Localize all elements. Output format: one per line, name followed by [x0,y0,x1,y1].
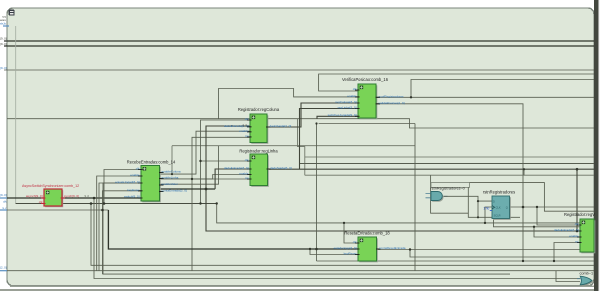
wire net enableValor branch right [172,146,415,174]
input port leds label [0,66,7,70]
svg-text:enableValor: enableValor [162,182,178,186]
input port estadoJogo label [0,266,7,270]
svg-text:enable: enable [239,172,249,176]
or-gate G2 comb~0 (clipped at right) [577,272,593,286]
wire net RecebeEntradas equaisJogada feed [103,183,141,274]
svg-text:estadoJogo[2..0]: estadoJogo[2..0] [334,246,357,250]
wire net clk input port trunk [15,26,17,204]
wire net RecebeEntradas keyEnter feed [103,191,511,274]
wire net clk into synchronizer [16,203,44,205]
svg-text:switchesJogada[9..0]: switchesJogada[9..0] [328,113,357,117]
wire net enableLinha to regLinha enable [160,175,251,179]
wire net AND gate label frame [431,183,470,188]
wire net rect B top edge [411,80,594,98]
svg-text:k..r: k..r [3,206,7,210]
svg-text:RecebeEntradas:comb_14: RecebeEntradas:comb_14 [127,160,176,165]
wire net key input port horizontal [7,209,108,211]
svg-text:Registrador:regColuna: Registrador:regColuna [238,107,280,112]
svg-text:synch[9..0]: synch[9..0] [64,194,79,198]
svg-text:keyReset: keyReset [344,252,357,256]
wire net bottom long 2 from input port [7,270,594,272]
svg-text:validaPosicao[1..0]: validaPosicao[1..0] [379,101,405,105]
svg-text:e..[2..0]: e..[2..0] [0,266,7,270]
wire net bottom port stub [0,270,7,272]
wire net keyReset feed [310,249,358,255]
wire net regValor clk feed [537,207,580,225]
svg-text:dadoEntrada[3..0]: dadoEntrada[3..0] [554,228,579,232]
wire net label frame continuation right [470,183,595,212]
input port keys[9..0] label [0,42,7,46]
wire net RecebeEntradas clk feed [104,170,141,204]
svg-text:enableColuna: enableColuna [162,170,181,174]
svg-text:comb~1: comb~1 [580,272,594,276]
synchronizer U1 AsyncSwitchSynchronizer:comb_12 [22,184,79,207]
input port info text top-left [0,15,7,25]
svg-text:contaResetEntrada: contaResetEntrada [379,246,406,250]
wire net enableColuna to regColuna enable [160,131,251,174]
wire bus switches[9..0] top full width [4,40,594,42]
svg-text:k..[9..0]: k..[9..0] [0,42,7,46]
svg-text:clk: clk [575,222,579,226]
module U2 RecebeEntradas:comb_14 [115,160,187,203]
wire bus contaEntrada output of RecebeEntradas [160,188,216,190]
wire net frame drop to under-DFF line [468,187,520,217]
wire net confRegistradores output of VerificaPosicao [377,96,595,98]
wire net bottom long 4 to OR gate [94,198,580,279]
svg-text:Registrador:regV: Registrador:regV [564,212,595,217]
window bottom edge strip [0,289,600,291]
svg-text:confRegistradores: confRegistradores [379,94,405,98]
wire bus synch output to switch pin [63,197,141,199]
svg-text:CLK: CLK [496,205,501,209]
module collapse icon [9,10,15,16]
svg-text:D: D [493,199,495,203]
wire net long mid line y176 [414,124,416,271]
input port key label [3,206,7,210]
svg-text:dadoSaida[3..0]: dadoSaida[3..0] [270,166,292,170]
and-gate G1 rstnRegistradores~0 [431,186,465,201]
svg-text:regLinha[3..0]: regLinha[3..0] [338,106,357,110]
wire net clk riser to regColuna and regLinha [201,120,251,204]
wire net clk right loop via VerificaPosicao clk [319,74,594,91]
window right edge strip [594,0,600,291]
svg-text:clk: clk [353,87,357,91]
svg-text:enable: enable [130,173,140,177]
wire net contaResetEntrada output [377,249,595,251]
wire net bottom long 1 [91,204,594,266]
module U6 ResetaEntrada:comb_18 [334,230,406,262]
svg-text:enable: enable [347,94,357,98]
svg-text:3..0: 3..0 [243,123,248,127]
wire net bottom long 3 [99,183,141,271]
svg-text:clk: clk [39,200,43,204]
wire net AND gate input 1 (vertical past gate) [431,175,469,213]
svg-text:clk: clk [3,199,7,203]
svg-text:regColuna[3..0]: regColuna[3..0] [335,100,356,104]
wire net rst riser to registers [192,137,250,270]
register U7 Registrador:regValor (clipped at right) [554,212,595,253]
svg-text:ResetaEntrada:comb_18: ResetaEntrada:comb_18 [344,230,390,235]
svg-text:contaEntrada[3..0]: contaEntrada[3..0] [162,189,187,193]
wire bus asynch port stub [0,197,7,199]
bus width annotation 3..0 near regColuna input [243,123,248,127]
input port clk label [3,199,7,203]
wire net right edge branch of dadoSaida [523,169,525,175]
wire net regValor enable feed [534,227,580,237]
wire net key port stub [0,209,7,211]
wire net leds full width [4,69,594,71]
wire net ResetaEntrada clk feed [344,223,358,243]
svg-text:dadoEntrada[3..0]: dadoEntrada[3..0] [224,166,249,170]
wire net mid light line with step [298,119,595,176]
svg-text:Q: Q [506,205,508,209]
wire net branch down from conta out [410,250,594,258]
wire net mid dead-end branch [319,123,415,125]
svg-text:asynch[9..0]: asynch[9..0] [26,194,43,198]
wire net DFF clk feed [485,207,492,223]
wire net OR gate output stub [593,279,594,281]
wire net validaPosicao output down to DFF column [377,104,524,207]
wire bus asynch input from port [7,197,44,199]
module U5 VerificaPosicao:comb_16 [328,77,405,119]
svg-text:rstnRegistradores: rstnRegistradores [483,189,515,194]
dff FF1 rstnRegistradores [483,189,515,219]
svg-text:enable: enable [239,129,249,133]
svg-text:keyEnter: keyEnter [127,188,139,192]
svg-text:switch[9..0]: switch[9..0] [124,194,140,198]
svg-text:1'h0: 1'h0 [483,207,489,211]
wire net clk long to right side [217,204,594,223]
wire net regLinha dadoSaida riser to VerificaPosicao regLinha input [300,109,359,170]
input port asynch label [0,193,7,197]
svg-text:ledsJo: ledsJo [0,21,7,25]
svg-text:clk: clk [353,240,357,244]
svg-text:rstnRegistradores~0: rstnRegistradores~0 [431,186,465,190]
wire bus contaEntrada riser to regLinha dado [215,169,250,189]
svg-text:l..[9..0]: l..[9..0] [0,66,7,70]
svg-text:equaisJogad[3..0]: equaisJogad[3..0] [115,180,140,184]
svg-text:VerificaPosicao:comb_16: VerificaPosicao:comb_16 [342,77,389,82]
wire net regColuna dadoSaida to VerificaPosicao regColuna input [267,103,358,127]
wire net RecebeEntradas enable feed [97,176,141,271]
svg-text:rst: rst [575,240,579,244]
wire bus keys[9..0] second top full width [4,45,594,47]
svg-text:AsyncSwitchSynchronizer:comb_1: AsyncSwitchSynchronizer:comb_12 [22,184,79,188]
wire bus estadoJogo to ResetaEntrada [108,210,358,249]
svg-text:rst: rst [245,176,249,180]
svg-text:enable: enable [569,234,579,238]
svg-text:9..0: 9..0 [85,194,90,198]
svg-text:enableLinha: enableLinha [162,176,179,180]
wire net OR gate input 2 [556,271,580,282]
svg-text:dadoSaida[3..0]: dadoSaida[3..0] [270,124,292,128]
svg-text:rst: rst [245,134,249,138]
wire net mid line from regLinha riser [300,163,595,165]
svg-text:Registrador:regLinha: Registrador:regLinha [239,149,278,154]
svg-text:s..[9..0]: s..[9..0] [0,193,7,197]
wire net regValor rst feed [554,243,580,262]
wire bus VerificaPosicao switches feed [317,116,358,118]
svg-text:SCLR: SCLR [494,214,501,218]
wire net regLinha dadoSaida down to regValor dado column [576,169,578,231]
register U4 Registrador:regLinha [224,149,292,187]
wire net DFF SCLR return line [494,220,595,227]
input port clk stub top-left [3,25,9,27]
wire net DFF Q output [510,206,595,208]
wire net regLinha dadoSaida long to right edge [268,168,594,170]
wire pin AND input ticks [426,194,448,198]
svg-text:clk: clk [245,158,249,162]
wire net enable riser to VerificaPosicao [160,89,359,185]
svg-text:clk: clk [136,167,140,171]
wire net validaPosicao column lower part [522,207,524,261]
register U3 Registrador:regColuna [224,107,291,144]
svg-text:clk: clk [245,117,249,121]
wire bus contaEntrada drop to regValor dado [206,189,580,231]
wire net AND gate output to DFF D [444,196,493,217]
wire net long horizontal mid 1 [7,119,594,128]
wire bus contaEntrada riser to regColuna dado [206,126,250,189]
bus width annotation 9..0 near synchronizer output [85,194,90,198]
svg-text:s..[9..0]: s..[9..0] [0,37,7,41]
wire net estado branch down to long low line [317,124,595,262]
input port switches[9..0] label [0,37,7,41]
